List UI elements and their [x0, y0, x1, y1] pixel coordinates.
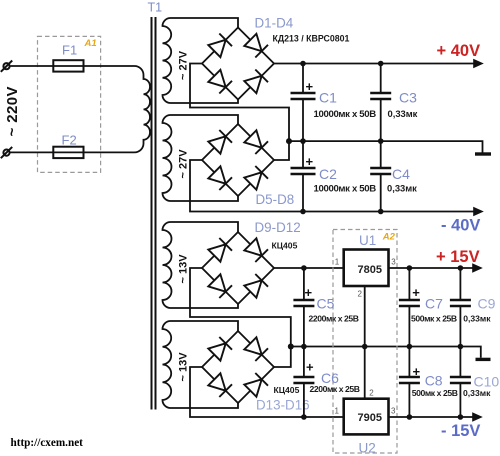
- junction node +15 rail / C7: [407, 265, 413, 271]
- svg-text:F1: F1: [62, 43, 77, 58]
- wire mid (0V) rail upper section: [289, 141, 483, 152]
- svg-text:2200мк x 25В: 2200мк x 25В: [309, 314, 359, 324]
- diode D3: [208, 70, 232, 94]
- svg-text:3: 3: [391, 258, 396, 267]
- svg-text:T1: T1: [148, 1, 163, 15]
- secondary winding 4 (~13V) with leads to bridge D13-D16: [163, 321, 239, 408]
- fuse F1: [53, 60, 83, 71]
- capacitor C8: [399, 347, 420, 418]
- svg-text:+: +: [413, 364, 421, 379]
- capacitor C7: [399, 268, 420, 347]
- bridge rectifier D13-D16 diamond: [202, 331, 274, 403]
- svg-text:http://cxem.net: http://cxem.net: [11, 437, 84, 449]
- capacitor C2: [291, 141, 316, 211]
- diode D12: [244, 274, 268, 298]
- svg-text:~ 27V: ~ 27V: [178, 50, 190, 80]
- wire U2 pin2 to ground rail: [364, 347, 366, 399]
- junction node -40 rail / C4: [378, 209, 384, 215]
- capacitor C6: [293, 347, 314, 418]
- svg-text:C2: C2: [319, 166, 337, 182]
- svg-text:КЦ405: КЦ405: [272, 241, 298, 251]
- wire +40V rail: [274, 63, 476, 65]
- svg-text:КД213 / КВРС0801: КД213 / КВРС0801: [273, 34, 350, 44]
- junction node ground upper / bridges: [286, 138, 292, 144]
- arrow -15V: [472, 412, 483, 422]
- capacitor C1: [291, 64, 316, 142]
- svg-text:500мк x 25В: 500мк x 25В: [411, 314, 457, 324]
- diode D15: [208, 373, 232, 397]
- transformer T1 primary winding: [135, 66, 151, 152]
- ground symbol upper: [475, 152, 491, 155]
- wire bridge1 minus output to ground node: [190, 64, 289, 142]
- svg-text:+: +: [306, 79, 314, 94]
- diode D4: [244, 70, 268, 94]
- svg-text:1: 1: [335, 258, 340, 267]
- svg-text:F2: F2: [62, 133, 77, 148]
- svg-text:A1: A1: [84, 38, 97, 49]
- diode D11: [208, 274, 232, 298]
- module A2 dashed box: [333, 230, 397, 454]
- svg-text:C3: C3: [399, 90, 417, 106]
- diode D16: [244, 373, 268, 397]
- junction node lower ground / C5 C6: [301, 344, 307, 350]
- junction node +15 rail / C9: [458, 265, 464, 271]
- svg-text:+: +: [306, 154, 314, 169]
- input terminal bottom (neutral): [1, 147, 12, 158]
- secondary winding 3 (~13V) with leads to bridge D9-D12: [163, 222, 239, 308]
- junction node +40 rail / C1: [300, 61, 306, 67]
- secondary winding 1 (~27V) with leads to bridge D1-D4: [163, 18, 239, 103]
- svg-text:3: 3: [391, 407, 396, 416]
- capacitor C9: [450, 268, 471, 347]
- junction node +40 rail / C3: [378, 61, 384, 67]
- capacitor C3: [370, 64, 391, 142]
- junction node mid rail / C1 C2: [300, 138, 306, 144]
- svg-text:- 40V: - 40V: [441, 217, 480, 235]
- svg-text:+ 15V: + 15V: [436, 248, 480, 266]
- diode D14: [244, 337, 268, 361]
- svg-text:10000мк x 50В: 10000мк x 50В: [314, 184, 377, 195]
- svg-text:7905: 7905: [358, 412, 382, 424]
- arrow +15V: [472, 263, 483, 273]
- bridge rectifier D9-D12 diamond: [202, 232, 274, 304]
- svg-text:+: +: [412, 285, 420, 300]
- junction node raw +15 / C5: [301, 265, 307, 271]
- junction node -40 rail / C2: [300, 209, 306, 215]
- svg-text:0,33мк: 0,33мк: [387, 183, 417, 194]
- svg-text:D9-D12: D9-D12: [255, 220, 301, 235]
- svg-text:C8: C8: [425, 373, 443, 389]
- capacitor C4: [370, 141, 391, 211]
- svg-text:D5-D8: D5-D8: [256, 192, 295, 207]
- junction node lower ground / bridges: [288, 344, 294, 350]
- svg-text:C1: C1: [319, 90, 337, 106]
- capacitor C5: [293, 268, 314, 347]
- svg-text:0,33мк: 0,33мк: [463, 388, 491, 398]
- svg-text:0,33мк: 0,33мк: [388, 108, 418, 119]
- svg-text:~ 13V: ~ 13V: [178, 254, 190, 284]
- wire bridge3 minus output to lower ground rail: [190, 268, 291, 347]
- wire +15V rail from U1 pin3: [389, 267, 475, 269]
- svg-text:0,33мк: 0,33мк: [463, 314, 491, 324]
- svg-text:2: 2: [369, 389, 374, 398]
- secondary winding 2 (~27V) with leads to bridge D5-D8: [163, 115, 239, 201]
- svg-text:КЦ405: КЦ405: [274, 385, 300, 395]
- diode D9: [208, 238, 232, 262]
- junction node mid rail / C3 C4: [378, 138, 384, 144]
- diode D7: [208, 166, 232, 190]
- diode D10: [244, 238, 268, 262]
- svg-text:2200мк x 25В: 2200мк x 25В: [310, 384, 360, 394]
- junction node -15 rail / C8: [407, 414, 413, 420]
- junction node -15 rail / C10: [458, 414, 464, 420]
- wire F1 to primary: [84, 65, 135, 67]
- wire lower ground (0V) rail: [291, 347, 481, 358]
- svg-text:C5: C5: [317, 296, 335, 312]
- regulator U1 7805: [344, 250, 389, 287]
- input terminal top (phase): [1, 61, 12, 72]
- wire bridge2 minus output to -40V rail: [190, 160, 476, 212]
- wire terminal to F1: [11, 65, 54, 67]
- svg-text:U1: U1: [359, 233, 376, 248]
- arrow +40V: [473, 59, 484, 69]
- wire U1 pin2 to ground rail: [364, 286, 366, 347]
- junction node lower ground / C9 C10: [458, 344, 464, 350]
- ground symbol lower: [476, 358, 491, 361]
- svg-text:+: +: [306, 360, 314, 375]
- diode D1: [208, 34, 232, 58]
- junction node lower ground / pin2: [362, 344, 368, 350]
- svg-text:A2: A2: [382, 232, 396, 243]
- bridge rectifier D5-D8 diamond: [202, 124, 274, 196]
- diode D5: [208, 130, 232, 154]
- wire bridge4 minus output to U2 input: [190, 367, 344, 417]
- capacitor C10: [450, 347, 471, 418]
- fuse F2: [53, 147, 83, 158]
- svg-text:C4: C4: [392, 166, 410, 182]
- diode D6: [244, 130, 268, 154]
- svg-text:500мк x 25В: 500мк x 25В: [412, 388, 458, 398]
- svg-text:+: +: [305, 285, 313, 300]
- svg-text:U2: U2: [359, 441, 376, 456]
- wire bridge4 plus output up to lower ground rail: [274, 347, 291, 368]
- svg-text:2: 2: [358, 290, 363, 299]
- diode D13: [208, 337, 232, 361]
- svg-text:C7: C7: [425, 296, 443, 312]
- svg-text:- 15V: - 15V: [441, 422, 480, 440]
- wire -15V rail from U2 pin3: [388, 416, 475, 418]
- junction node lower ground / C7 C8: [407, 344, 413, 350]
- arrow -40V: [473, 207, 484, 217]
- wire bridge2 plus output up to ground node: [274, 141, 289, 160]
- svg-text:~ 27V: ~ 27V: [178, 149, 190, 179]
- svg-text:D1-D4: D1-D4: [255, 15, 294, 30]
- svg-text:~ 13V: ~ 13V: [178, 352, 190, 382]
- svg-text:10000мк x 50В: 10000мк x 50В: [314, 109, 377, 120]
- svg-text:+ 40V: + 40V: [437, 42, 481, 60]
- svg-text:C9: C9: [478, 296, 496, 312]
- diode D8: [244, 166, 268, 190]
- svg-text:7805: 7805: [358, 264, 382, 276]
- wire bridge3 plus output to U1 input: [274, 267, 344, 269]
- wire F2 to primary: [84, 151, 135, 153]
- diode D2: [244, 34, 268, 58]
- transformer core: [152, 17, 156, 410]
- wire terminal to F2: [11, 151, 54, 153]
- module A1 dashed box: [38, 36, 101, 172]
- regulator U2 7905: [344, 399, 389, 435]
- bridge rectifier D1-D4 diamond: [202, 28, 274, 100]
- svg-text:~ 220V: ~ 220V: [4, 86, 21, 136]
- svg-text:D13-D16: D13-D16: [256, 397, 310, 412]
- junction node raw -15 / C6: [301, 414, 307, 420]
- svg-text:1: 1: [335, 407, 340, 416]
